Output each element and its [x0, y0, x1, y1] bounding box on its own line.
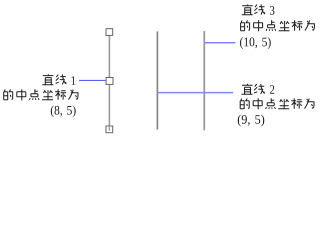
wire: blue leader from 直线 1 label to midpoint handle	[79, 79, 106, 81]
text 的中点坐标为 (top right)	[241, 20, 315, 31]
handle: midpoint of 直线 1	[106, 78, 113, 85]
text 直线 3	[242, 4, 275, 14]
wire: blue leader from 直线 2 to 直线 2 label	[157, 92, 233, 94]
text (10, 5) midpoint coordinates of line 3	[240, 37, 271, 49]
line 直线 2 (vertical segment x=9)	[156, 31, 158, 129]
text 直线 2	[242, 84, 275, 94]
wire: line stub inside bottom handle	[108, 127, 110, 131]
handle: bottom endpoint of 直线 1	[106, 126, 113, 133]
text 的中点坐标为 (bottom right)	[240, 98, 314, 109]
text (8, 5) midpoint coordinates of line 1	[51, 105, 76, 117]
line 直线 1 (vertical segment x=8)	[108, 32, 110, 129]
text 的中点坐标为 (left, line 2)	[4, 89, 78, 100]
text (9, 5) midpoint coordinates of line 2	[238, 115, 265, 127]
wire: blue leader from 直线 3 to (10, 5) label	[204, 42, 236, 44]
line 直线 3 (vertical segment x=10)	[203, 31, 205, 130]
text 直线 1 (label of line 1)	[42, 74, 75, 85]
handle: top endpoint of 直线 1	[106, 29, 113, 36]
